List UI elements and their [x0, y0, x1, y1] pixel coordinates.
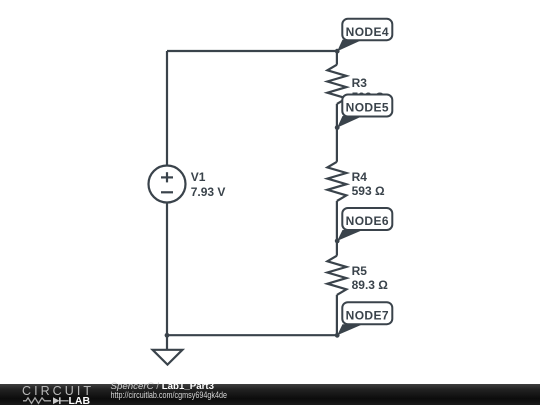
svg-text:LAB: LAB: [69, 395, 91, 405]
resistor R3: [327, 65, 346, 104]
wire R3 to NODE5 to R4: [336, 104, 338, 162]
svg-text:NODE5: NODE5: [346, 101, 389, 115]
junction dot ground: [165, 333, 170, 338]
junction dot NODE7: [335, 333, 340, 338]
node NODE5 box: [342, 95, 392, 117]
ground stub: [166, 335, 168, 350]
logo resistor zigzag: [23, 398, 51, 404]
wire R5 to NODE7: [336, 295, 338, 335]
resistor R5: [327, 256, 346, 295]
wire left vertical upper: [166, 51, 168, 166]
svg-text:NODE7: NODE7: [346, 309, 389, 323]
voltage source V1 circle: [149, 166, 186, 203]
svg-text:89.3 Ω: 89.3 Ω: [352, 278, 389, 292]
svg-text:R3: R3: [352, 76, 368, 90]
svg-text:R4: R4: [352, 170, 368, 184]
ground symbol: [153, 350, 183, 365]
wire top horizontal: [167, 50, 337, 52]
node NODE4 box: [342, 19, 392, 40]
logo diode: [53, 397, 60, 404]
resistor R4: [327, 162, 346, 201]
svg-text:R5: R5: [352, 264, 368, 278]
svg-text:7.93 V: 7.93 V: [191, 185, 226, 199]
junction dot NODE5: [335, 125, 340, 130]
junction dot NODE6: [335, 239, 340, 244]
wire bottom horizontal: [167, 334, 337, 336]
svg-text:NODE4: NODE4: [346, 25, 389, 39]
node NODE7 box: [342, 302, 392, 324]
wire left vertical lower: [166, 203, 168, 336]
node NODE5 callout pointer: [337, 116, 363, 128]
svg-text:http://circuitlab.com/cgmsy694: http://circuitlab.com/cgmsy694gk4de: [111, 390, 228, 400]
node NODE6 box: [342, 208, 392, 230]
V1 minus sign: [161, 191, 173, 193]
footer bar: [0, 384, 540, 405]
V1 plus sign: [161, 172, 173, 192]
svg-text:NODE6: NODE6: [346, 214, 389, 228]
wire right column upper stub: [336, 51, 338, 65]
node NODE4 callout pointer: [337, 40, 363, 52]
wire R4 to NODE6 to R5: [336, 201, 338, 256]
svg-text:V1: V1: [191, 170, 206, 184]
node NODE6 callout pointer: [337, 230, 363, 241]
node NODE7 callout pointer: [337, 324, 363, 335]
junction dot NODE4: [335, 49, 340, 54]
svg-text:593 Ω: 593 Ω: [352, 184, 385, 198]
